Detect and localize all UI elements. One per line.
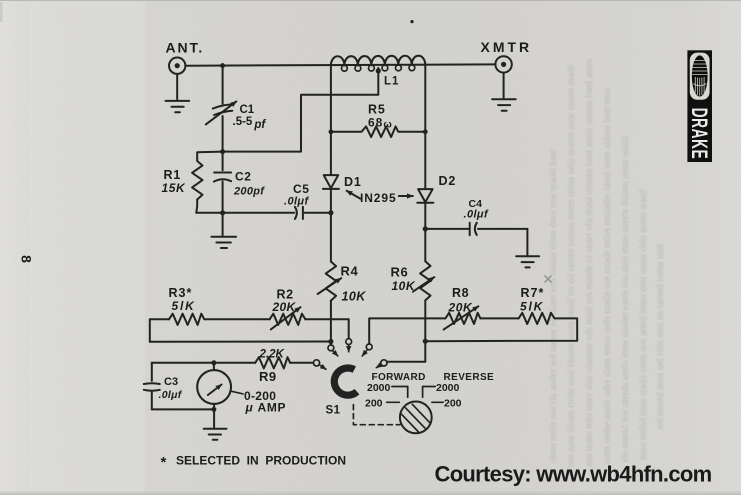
svg-text:2.2K: 2.2K (259, 349, 285, 361)
bleed-through ghost text columns (548, 59, 666, 467)
svg-text:R1: R1 (164, 168, 182, 182)
scan edge line (top) (0, 0, 741, 1)
ground (meter) (204, 409, 227, 439)
node: R4/box-bottom junction (328, 339, 333, 344)
wire: R4 to switch contact (330, 301, 332, 345)
dashed link: S1 rotor to rear wafer (353, 405, 400, 425)
wire: R6 down to switch contact (387, 300, 425, 361)
svg-text:μ: μ (245, 401, 254, 415)
wire: D2 branch (upper) (424, 65, 426, 189)
svg-text:.0lμf: .0lμf (284, 196, 309, 208)
wire: lower node bus with C5 (196, 212, 331, 214)
wire: R7 to right box edge and bottom (425, 318, 577, 341)
svg-text:ans tedre mlo itner dus oitamr: ans tedre mlo itner dus oitamre eds noit… (584, 59, 595, 467)
arrow: contact A (333, 351, 338, 356)
node: C5 / D1 branch junction (328, 210, 333, 215)
resistor R5 (331, 126, 425, 137)
ground (C4) (516, 229, 539, 268)
svg-text:D1: D1 (344, 175, 362, 189)
svg-text:200: 200 (444, 398, 462, 410)
svg-text:R7*: R7* (521, 286, 545, 300)
svg-text:R6: R6 (391, 265, 409, 280)
svg-text:sol mertd anoi uel rtds omi en: sol mertd anoi uel rtds omi en tarsed lo… (655, 243, 666, 430)
svg-text:200pf: 200pf (233, 186, 265, 198)
resistor R8 (variable) (444, 306, 481, 329)
switch S1 contact D (from R6) (381, 360, 387, 366)
wire: left box bottom (150, 341, 331, 343)
bracket: reverse 200 tap (432, 401, 443, 403)
resistor R9 (255, 357, 290, 368)
svg-text:20K: 20K (272, 300, 297, 314)
node: R1/C2/C5/ground junction (220, 210, 225, 215)
label pointer line (meter) (232, 391, 243, 394)
svg-text:AMP: AMP (258, 401, 287, 415)
arrow: contact C (362, 350, 367, 356)
node: R6/right-box junction (423, 339, 428, 344)
wire: right divider box top (R8/R7) (369, 318, 445, 343)
svg-text:5lK: 5lK (520, 300, 544, 314)
svg-text:R9: R9 (259, 369, 277, 384)
switch S1 rotor (crescent wiper) (334, 368, 357, 395)
Drake logo panel (687, 50, 712, 162)
svg-text:L1: L1 (384, 76, 399, 88)
svg-text:C1: C1 (240, 104, 255, 116)
switch S1 contact E (from R9) (313, 360, 319, 366)
meter M1 (0-200 uA) (197, 363, 231, 410)
switch S1 rear wafer (hatched) (400, 402, 432, 434)
svg-text:R4: R4 (341, 264, 359, 279)
svg-text:R3*: R3* (169, 286, 193, 300)
switch S1 contact C (from R8 box) (366, 344, 372, 350)
svg-text:C5: C5 (293, 182, 310, 196)
arrow: IN295 to D1 (347, 191, 361, 199)
svg-text:Courtesy: www.wb4hfn.com: Courtesy: www.wb4hfn.com (435, 462, 712, 487)
wire: main antenna-to-xmtr bus (185, 64, 495, 65)
scan speck (410, 20, 413, 23)
svg-text:15K: 15K (162, 181, 187, 195)
svg-text:10K: 10K (342, 290, 367, 304)
resistor R4 (variable) (318, 262, 342, 301)
capacitor C1 (variable trimmer) (206, 66, 237, 152)
node: L1 center tap (376, 68, 381, 73)
wire: D1 branch (lower) (330, 189, 332, 261)
ground (XMTR) (492, 73, 516, 111)
svg-text:els martd noi uterds amlo intr: els martd noi uterds amlo intre dsolm ea… (620, 137, 631, 463)
svg-text:*: * (161, 454, 167, 471)
capacitor C5 (295, 207, 303, 219)
switch S1 contact B (from R2 wiper) (346, 339, 352, 345)
resistor R3 (169, 314, 204, 325)
svg-text:C2: C2 (235, 170, 252, 184)
capacitor C2 (214, 152, 231, 213)
capacitor C4 (425, 223, 527, 236)
svg-text:C3: C3 (164, 376, 178, 388)
svg-text:SELECTED IN PRODUCTION: SELECTED IN PRODUCTION (176, 454, 346, 468)
node: meter top junction (211, 360, 216, 365)
diode D2 (417, 189, 433, 203)
bracket: reverse 2000 tap (423, 387, 436, 398)
svg-text:2000: 2000 (367, 382, 391, 394)
svg-text:DRAKE: DRAKE (687, 108, 712, 160)
resistor R1 (192, 152, 223, 213)
wire: D1 branch (upper) (330, 66, 332, 175)
bracket: forward 200 tap (387, 401, 400, 403)
arrow: contact D (376, 365, 381, 368)
wire: R2 to S1 contact B (305, 319, 348, 338)
svg-text:D2: D2 (439, 174, 457, 188)
svg-text:mao trelsd niue trado slem noi: mao trelsd niue trado slem noi arted slm… (638, 190, 649, 461)
svg-text:200: 200 (365, 398, 383, 410)
node: R5 left junction (329, 129, 334, 134)
capacitor C3 (144, 363, 160, 410)
wire: L1 tap to C1/C2 node (223, 68, 379, 152)
svg-text:S1: S1 (326, 405, 341, 417)
arrow: contact E (320, 365, 327, 369)
wire: C3 bottom to meter bottom (152, 408, 214, 410)
svg-text:20K: 20K (448, 301, 474, 315)
pencil x mark (545, 276, 552, 283)
svg-text:10K: 10K (392, 279, 416, 293)
wire: D2 branch (lower) (424, 203, 426, 261)
wire: R8 to R7 (480, 317, 518, 319)
wire: R9 to S1 contact E (290, 362, 313, 364)
arrow: IN295 to D2 (399, 195, 413, 197)
resistor R2 (variable) (270, 307, 306, 329)
svg-text:R5: R5 (368, 103, 386, 117)
resistor R6 (variable) (413, 261, 434, 300)
bracket: forward 2000 tap (392, 387, 408, 398)
svg-text:8: 8 (19, 255, 35, 263)
node: R5 right junction (423, 129, 428, 134)
resistor R7 (519, 313, 555, 324)
svg-text:.0lμf: .0lμf (159, 389, 183, 401)
ground (ANT) (166, 74, 190, 112)
svg-text:R8: R8 (452, 286, 469, 300)
wire: left divider box (R3/R2) (150, 319, 169, 342)
connector J2 XMTR (495, 56, 511, 72)
node: C1/C2/R1 junction (220, 149, 225, 154)
svg-text:.0lμf: .0lμf (464, 209, 489, 221)
scan edge band (bottom) (0, 492, 741, 495)
node: main bus / C1 branch junction (220, 63, 225, 68)
svg-text:red nate ilsom rtede noit elud: red nate ilsom rtede noit eluder stam en… (566, 63, 577, 467)
svg-text:2000: 2000 (436, 382, 460, 394)
switch S1 contact A (from R4) (328, 345, 334, 351)
svg-text:XMTR: XMTR (481, 39, 533, 55)
connector J1 ANT (169, 57, 185, 73)
wire: R3 to R2 (204, 318, 269, 320)
svg-text:tolm redse anoit uder slam ent: tolm redse anoit uder slam entoi reds ma… (602, 87, 613, 464)
svg-text:olsm terds noi tlu ander sol t: olsm terds noi tlu ander sol tamre ed ni… (548, 148, 559, 463)
node: C4 junction (423, 226, 428, 231)
arrow: contact B (348, 345, 350, 352)
inductor L1 (331, 56, 425, 72)
svg-text:ANT.: ANT. (166, 40, 205, 56)
ground (C2 node) (211, 213, 236, 248)
wire: meter loop top with R9 (152, 362, 255, 364)
svg-text:IN295: IN295 (360, 191, 397, 205)
node: meter bottom junction (211, 407, 216, 412)
diode D1 (323, 175, 339, 189)
svg-text:5lK: 5lK (172, 299, 196, 313)
